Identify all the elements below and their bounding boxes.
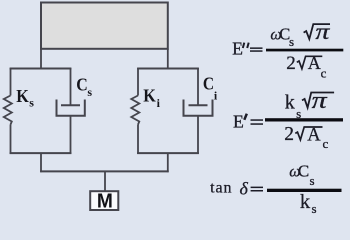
equals sign 2 bbox=[251, 119, 264, 121]
svg-text:s: s bbox=[29, 95, 34, 109]
fraction bar 2 bbox=[265, 118, 343, 121]
svg-text:C: C bbox=[203, 73, 214, 93]
svg-text:E: E bbox=[233, 112, 244, 132]
svg-text:A: A bbox=[308, 53, 321, 73]
left unit left lead lower bbox=[10, 125, 12, 155]
svg-text:π: π bbox=[315, 19, 331, 44]
svg-text:s: s bbox=[310, 173, 315, 188]
equation E' = ks*sqrt(pi) / 2 sqrt(Ac) bbox=[233, 88, 343, 151]
svg-text:k: k bbox=[285, 92, 295, 114]
damper Cs upper lead bbox=[70, 68, 72, 105]
svg-text:2: 2 bbox=[286, 53, 296, 74]
damper Ci cup bbox=[184, 100, 213, 116]
left unit left lead upper bbox=[10, 68, 12, 96]
equals sign 1 bbox=[250, 47, 263, 49]
svg-text:C: C bbox=[298, 162, 309, 181]
damper Ci upper lead bbox=[197, 68, 199, 105]
spring Ks bbox=[4, 96, 12, 125]
equals sign 3 bbox=[251, 187, 263, 189]
wire: right unit to collector bbox=[167, 153, 169, 172]
wire: collector to mass M bbox=[104, 171, 106, 191]
svg-text:s: s bbox=[312, 201, 317, 215]
fraction bar 3 bbox=[267, 189, 342, 192]
double prime marks bbox=[243, 43, 245, 48]
equation E'' = wCs*sqrt(pi) / 2 sqrt(Ac) bbox=[232, 19, 343, 81]
svg-text:π: π bbox=[312, 88, 328, 114]
collector bar bbox=[40, 170, 169, 172]
equation tan delta = wCs / ks bbox=[210, 162, 341, 216]
left unit bottom bar bbox=[10, 152, 72, 154]
spring Ki bbox=[131, 96, 139, 125]
top plate (rigid mass block) bbox=[41, 3, 168, 49]
svg-text:M: M bbox=[97, 191, 113, 213]
fraction bar 1 bbox=[266, 49, 343, 52]
mass box M bbox=[90, 191, 118, 210]
left unit top bar bbox=[10, 68, 72, 70]
damper Cs cup bbox=[57, 100, 85, 116]
svg-text:s: s bbox=[87, 85, 92, 99]
wire: left unit to collector bbox=[40, 153, 42, 172]
wire: plate to left unit bbox=[40, 49, 42, 69]
svg-text:k: k bbox=[300, 191, 311, 213]
damper Ci piston bbox=[189, 104, 208, 106]
svg-text:c: c bbox=[323, 136, 329, 151]
damper Cs lower lead bbox=[70, 117, 72, 155]
damper Cs piston bbox=[61, 104, 80, 106]
right unit left lead upper bbox=[137, 68, 139, 96]
svg-text:C: C bbox=[76, 75, 88, 95]
svg-text:2: 2 bbox=[284, 124, 294, 145]
svg-text:K: K bbox=[16, 86, 29, 106]
svg-text:δ: δ bbox=[240, 179, 249, 199]
svg-text:K: K bbox=[143, 85, 156, 105]
right unit top bar bbox=[137, 68, 199, 70]
prime mark bbox=[244, 114, 247, 120]
svg-text:E: E bbox=[232, 39, 243, 59]
right unit left lead lower bbox=[137, 125, 139, 155]
wire: plate to right unit bbox=[167, 49, 169, 69]
svg-text:s: s bbox=[289, 34, 294, 49]
svg-text:tan: tan bbox=[210, 180, 232, 197]
right unit bottom bar bbox=[137, 152, 199, 154]
svg-text:c: c bbox=[321, 66, 327, 81]
svg-text:A: A bbox=[307, 125, 321, 145]
damper Ci lower lead bbox=[197, 117, 199, 155]
